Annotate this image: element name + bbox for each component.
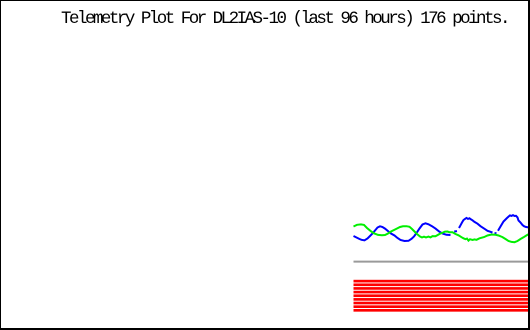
title text [61, 9, 508, 30]
red telemetry trace band (channel 4, striped) [354, 280, 530, 312]
blue telemetry trace, segment 2 [459, 218, 493, 233]
blue telemetry trace, short dash [495, 232, 497, 234]
blue telemetry trace (channel 1), segment 1 [354, 223, 451, 241]
green telemetry trace (channel 2) [354, 224, 530, 242]
blue telemetry trace, isolated dash [454, 230, 457, 232]
gray telemetry trace (channel 3, constant) [354, 261, 530, 263]
blue telemetry trace, segment 3 [498, 215, 530, 231]
